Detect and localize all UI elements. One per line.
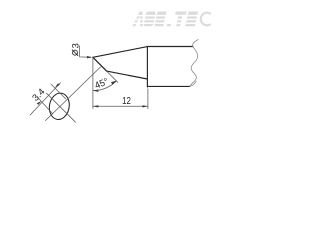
centerline vertical from apex — [92, 57, 94, 108]
ellipse major axis centerline — [47, 93, 76, 122]
3.4 upper extension tick — [51, 84, 66, 99]
arrowhead 3.4 dim lower outside — [37, 101, 42, 105]
taper top edge — [93, 47, 147, 58]
3.4 dimension line — [30, 83, 61, 116]
letter E — [154, 12, 166, 27]
letter C — [201, 13, 211, 26]
dia3 leader line — [80, 46, 91, 57]
bevel cut edge 45deg — [93, 57, 107, 71]
12 right extension line — [147, 89, 149, 109]
dot — [167, 24, 171, 27]
letter E2 — [185, 12, 198, 27]
12 dimension line — [93, 105, 148, 107]
ellipse minor axis centerline to apex — [46, 67, 101, 121]
cylinder bottom edge — [147, 85, 189, 87]
svg-text:12: 12 — [122, 96, 131, 107]
watermark logo ABE.TEC — [132, 12, 198, 27]
arrowhead dia3 leader at apex — [87, 56, 93, 58]
3.4 lower extension tick — [37, 97, 53, 114]
label dia 3 — [70, 43, 80, 56]
letter A — [132, 12, 146, 27]
arrowhead 45 arc bottom end — [93, 90, 99, 92]
taper bottom edge — [107, 71, 148, 79]
shoulder line — [146, 47, 148, 88]
ellipse face view — [47, 92, 71, 122]
arrowhead 45 arc right end — [111, 81, 117, 85]
cylinder top edge — [147, 46, 193, 48]
letter B — [143, 12, 156, 27]
45deg arc — [93, 81, 117, 91]
arrowhead 3.4 dim upper outside — [55, 83, 60, 87]
bevel cut extension line — [107, 71, 118, 82]
wavy break line — [190, 40, 199, 87]
letter T — [175, 12, 187, 15]
svg-text:45°: 45° — [93, 76, 110, 91]
arrowhead 12 dim right — [142, 105, 148, 107]
svg-text:3: 3 — [70, 43, 80, 48]
arrowhead 12 dim left — [93, 105, 99, 107]
watermark slat gaps — [132, 15, 199, 24]
